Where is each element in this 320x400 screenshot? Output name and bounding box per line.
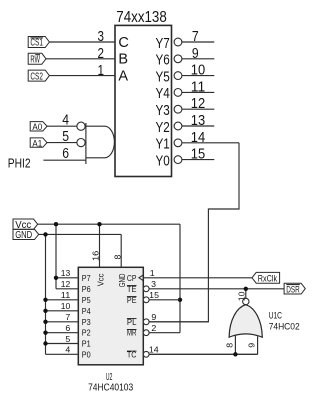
svg-text:12: 12: [61, 280, 71, 289]
svg-text:74HC40103: 74HC40103: [88, 382, 133, 393]
svg-text:PE: PE: [127, 296, 137, 305]
svg-text:U1C: U1C: [269, 310, 283, 320]
svg-text:RxClk: RxClk: [258, 273, 277, 284]
svg-text:P1: P1: [82, 340, 91, 349]
svg-text:A0: A0: [32, 122, 42, 132]
svg-text:Y4: Y4: [156, 86, 170, 102]
svg-text:14: 14: [191, 130, 205, 146]
svg-text:Y0: Y0: [156, 153, 170, 169]
svg-text:P2: P2: [82, 329, 91, 338]
svg-text:14: 14: [149, 346, 160, 355]
svg-text:3: 3: [98, 29, 105, 45]
svg-text:9: 9: [248, 343, 257, 348]
svg-text:CP: CP: [127, 274, 137, 283]
svg-text:MR: MR: [127, 329, 137, 338]
svg-text:CS1: CS1: [30, 38, 43, 49]
svg-text:15: 15: [191, 147, 205, 163]
svg-text:74xx138: 74xx138: [116, 9, 167, 26]
svg-text:5: 5: [62, 129, 69, 145]
svg-text:Vcc: Vcc: [97, 274, 106, 287]
svg-text:GND: GND: [15, 230, 32, 241]
svg-text:74HC02: 74HC02: [269, 321, 300, 331]
svg-text:13: 13: [191, 113, 205, 129]
svg-text:DSR: DSR: [286, 284, 300, 295]
svg-text:Y3: Y3: [156, 103, 170, 119]
svg-text:5: 5: [65, 335, 71, 344]
svg-text:PL: PL: [127, 318, 137, 327]
svg-text:P7: P7: [82, 274, 91, 283]
svg-text:7: 7: [65, 313, 70, 322]
svg-text:GND: GND: [118, 273, 127, 287]
svg-text:9: 9: [192, 46, 199, 62]
svg-text:6: 6: [62, 146, 69, 162]
svg-text:P4: P4: [82, 307, 91, 316]
svg-text:1: 1: [98, 63, 105, 79]
svg-text:13: 13: [61, 269, 71, 278]
svg-text:A1: A1: [32, 138, 42, 148]
svg-text:3: 3: [151, 280, 156, 289]
svg-text:P6: P6: [82, 285, 91, 294]
svg-text:4: 4: [62, 113, 69, 129]
svg-text:12: 12: [191, 96, 205, 112]
svg-text:P3: P3: [82, 318, 91, 327]
svg-text:RW: RW: [30, 55, 40, 66]
svg-text:TC: TC: [127, 350, 137, 359]
svg-text:10: 10: [191, 63, 205, 79]
svg-text:7: 7: [192, 29, 199, 45]
svg-text:C: C: [118, 35, 128, 51]
svg-text:8: 8: [113, 255, 122, 260]
svg-text:Y1: Y1: [156, 137, 170, 153]
svg-text:Y5: Y5: [156, 69, 170, 85]
svg-text:6: 6: [65, 324, 70, 333]
svg-text:10: 10: [238, 291, 247, 302]
svg-text:2: 2: [98, 46, 105, 62]
svg-text:11: 11: [61, 291, 71, 300]
svg-text:CS2: CS2: [30, 71, 43, 82]
svg-text:15: 15: [149, 291, 160, 300]
svg-text:P5: P5: [82, 296, 91, 305]
svg-text:9: 9: [151, 313, 156, 322]
svg-text:4: 4: [65, 346, 71, 355]
svg-text:B: B: [118, 52, 128, 68]
svg-text:16: 16: [91, 251, 100, 261]
svg-text:P0: P0: [82, 350, 91, 359]
svg-text:Y2: Y2: [156, 120, 170, 136]
svg-text:1: 1: [150, 269, 155, 278]
svg-text:Y7: Y7: [156, 36, 170, 52]
svg-text:U2: U2: [106, 372, 113, 383]
svg-text:2: 2: [151, 324, 156, 333]
svg-text:TE: TE: [127, 285, 137, 294]
svg-text:Y6: Y6: [156, 53, 170, 69]
svg-text:11: 11: [191, 79, 205, 95]
svg-text:PHI2: PHI2: [8, 157, 31, 171]
svg-text:A: A: [118, 69, 128, 85]
svg-text:10: 10: [61, 302, 71, 311]
svg-text:8: 8: [226, 343, 235, 348]
